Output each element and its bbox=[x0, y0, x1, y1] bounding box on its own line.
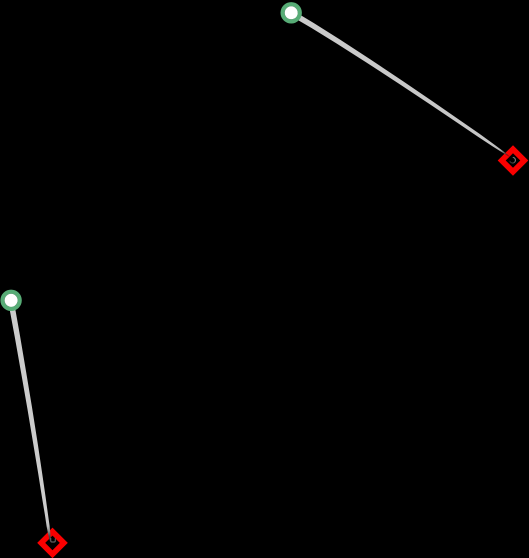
start marker circle S1 white center bbox=[285, 6, 298, 19]
end marker diamond D1 (top right) bbox=[498, 145, 529, 176]
end marker diamond D2 (bottom left) bbox=[37, 528, 68, 558]
hook H2 inside diamond D2 bbox=[51, 538, 56, 542]
hook H1 inside diamond D1 bbox=[510, 157, 516, 163]
start marker circle S2 white center bbox=[5, 294, 18, 307]
start marker circle S1 (top) bbox=[283, 4, 300, 21]
wire trail T2 (bottom swipe) bbox=[8, 300, 51, 541]
wire trail T1 (top swipe) bbox=[290, 10, 513, 158]
start marker circle S2 (bottom) bbox=[3, 292, 20, 309]
